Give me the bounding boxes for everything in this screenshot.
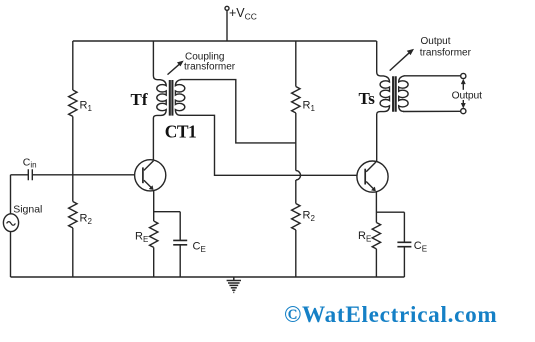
wire RE2 bottom lead	[375, 249, 377, 277]
wire Q1 emitter	[153, 191, 155, 221]
wire left bias branch upper (R1 top lead)	[72, 41, 74, 90]
wire CE1 top lead	[179, 212, 181, 241]
wire stage2 bias branch to R2	[295, 180, 297, 204]
resistor R2 (stage 1)	[69, 202, 77, 228]
wire stage2 bias branch upper	[295, 41, 297, 87]
wire Tf secondary top to stage2 bias node	[181, 80, 296, 143]
wire signal source top lead	[10, 175, 12, 214]
wire CE1 bottom lead	[179, 245, 181, 277]
resistor RE (stage 2)	[372, 223, 380, 249]
output double arrow	[462, 81, 464, 106]
svg-text:Output: Output	[452, 91, 483, 102]
svg-text:transformer: transformer	[184, 62, 236, 73]
svg-text:CT1: CT1	[165, 121, 196, 141]
wire Tf secondary bottom to Q2 base	[180, 115, 357, 175]
wire left bias branch lower	[72, 228, 74, 277]
transformer Tf primary winding	[153, 41, 166, 160]
coupling transformer pointer arrow	[168, 64, 180, 74]
wire crossover hop	[296, 171, 301, 180]
svg-text:Signal: Signal	[13, 204, 42, 216]
transistor Q1	[135, 160, 166, 191]
output transformer pointer arrow	[390, 53, 410, 71]
wire emitter to CE2	[376, 211, 404, 213]
wire Q2 emitter	[375, 192, 377, 223]
svg-text:Cin: Cin	[23, 157, 37, 170]
capacitor CE (stage 1)	[173, 240, 187, 244]
wire stage2 bias branch middle	[295, 113, 297, 171]
svg-text:RE: RE	[135, 231, 148, 245]
resistor R1 (stage 1)	[69, 90, 77, 116]
svg-text:+VCC: +VCC	[229, 6, 257, 22]
wire input lead left of Cin	[11, 174, 29, 176]
transformer Ts secondary winding	[399, 76, 408, 112]
transformer Ts core	[393, 76, 396, 112]
wire Ts secondary bottom lead	[403, 110, 460, 112]
svg-text:Ts: Ts	[359, 89, 376, 108]
label Output (between terminals, white backed)	[451, 90, 481, 100]
wire CE2 top lead	[403, 212, 405, 242]
transistor Q2	[357, 161, 388, 192]
svg-text:Tf: Tf	[131, 90, 148, 109]
output terminal bottom	[461, 109, 466, 114]
svg-text:transformer: transformer	[420, 48, 472, 59]
svg-text:RE: RE	[358, 230, 371, 244]
Vcc terminal	[225, 6, 229, 10]
wire left bias branch middle	[72, 116, 74, 201]
resistor R1 (stage 2)	[292, 87, 300, 113]
transformer Ts primary winding	[377, 41, 390, 162]
wire input lead Cin to Q1 base	[32, 174, 134, 176]
wire bottom ground rail	[11, 276, 405, 278]
svg-text:R1: R1	[303, 100, 316, 114]
wire emitter to CE1	[154, 211, 181, 213]
svg-text:R1: R1	[80, 100, 93, 114]
svg-text:Output: Output	[421, 36, 451, 47]
transformer Tf secondary winding	[175, 80, 184, 116]
transformer Tf core	[170, 80, 173, 116]
output terminal top	[461, 73, 466, 78]
svg-text:R2: R2	[80, 213, 93, 227]
wire signal source bottom lead	[10, 232, 12, 277]
capacitor Cin	[28, 169, 32, 180]
wire Ts secondary top lead	[404, 75, 461, 77]
wire CE2 bottom lead	[403, 247, 405, 277]
ground	[227, 277, 241, 292]
wire stage2 bias branch lower	[295, 230, 297, 277]
wire top rail	[73, 40, 377, 42]
svg-text:CE: CE	[414, 240, 427, 254]
svg-text:R2: R2	[303, 209, 316, 223]
capacitor CE (stage 2)	[397, 242, 411, 246]
svg-text:©WatElectrical.com: ©WatElectrical.com	[284, 302, 497, 328]
signal source AC symbol	[3, 214, 18, 232]
wire RE1 bottom lead	[153, 247, 155, 277]
resistor R2 (stage 2)	[292, 204, 300, 230]
resistor RE (stage 1)	[150, 221, 158, 247]
node Vcc stub wire	[226, 10, 228, 41]
svg-text:CE: CE	[193, 241, 206, 255]
